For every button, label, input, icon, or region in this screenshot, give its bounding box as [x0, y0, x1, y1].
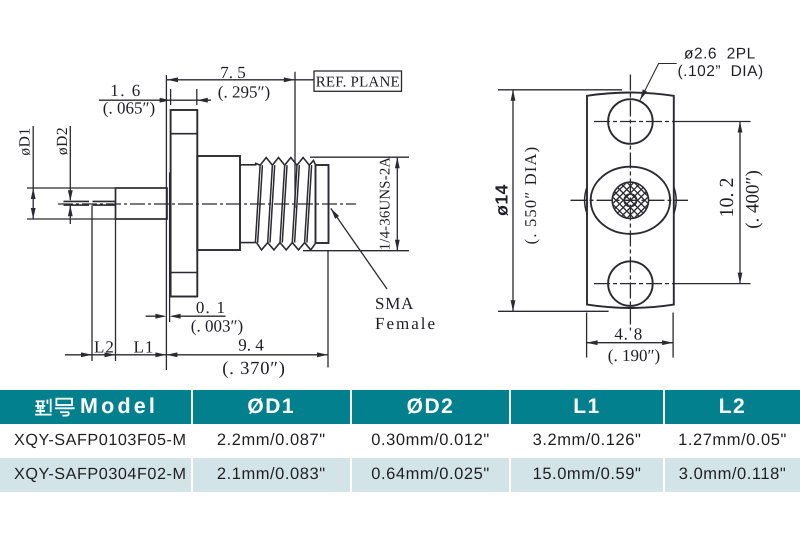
mid body	[197, 156, 240, 250]
data row 2	[0, 458, 205, 492]
header text 型号 (Model in Chinese, drawn strokes)	[30, 396, 78, 418]
svg-text:(. 400″): (. 400″)	[743, 170, 764, 229]
flange plate	[171, 110, 198, 297]
table header row background	[0, 390, 191, 424]
svg-text:(.102” DIA): (.102” DIA)	[678, 63, 764, 80]
dimension 4.8	[586, 313, 588, 358]
svg-text:(. 065″): (. 065″)	[103, 99, 155, 118]
ref plane line	[294, 72, 296, 208]
flange hole lines	[171, 133, 198, 135]
flange front outline	[587, 93, 674, 309]
header cell Model	[0, 390, 219, 424]
data row 1	[0, 424, 205, 458]
svg-text:Female: Female	[375, 314, 437, 333]
svg-text:1/4-36UNS-2A: 1/4-36UNS-2A	[378, 157, 394, 251]
REF. PLANE box	[295, 79, 314, 81]
svg-text:øD1: øD1	[17, 127, 34, 155]
ØD2 dimension	[69, 126, 71, 200]
thread undercut	[240, 164, 257, 166]
svg-text:0. 1: 0. 1	[196, 298, 226, 317]
dielectric rod ØD1	[116, 188, 168, 219]
ØD1 dimension	[32, 126, 34, 219]
mounting hole top	[608, 99, 653, 144]
thread flank lines	[255, 165, 260, 242]
svg-text:REF. PLANE: REF. PLANE	[316, 74, 400, 90]
svg-text:øD2: øD2	[54, 127, 71, 155]
bottom hole centerline	[594, 283, 676, 285]
svg-text:9. 4: 9. 4	[238, 336, 264, 355]
svg-text:(. 003″): (. 003″)	[191, 317, 243, 336]
pin socket circle	[624, 194, 636, 206]
svg-text:SMA: SMA	[375, 294, 414, 313]
svg-text:ø2.6 2PL: ø2.6 2PL	[684, 46, 756, 63]
mounting hole bottom	[608, 261, 653, 306]
table row 2 background	[0, 458, 191, 492]
top hole centerline	[594, 121, 676, 123]
thread crest profile bottom	[257, 243, 316, 250]
svg-text:7. 5: 7. 5	[220, 63, 246, 82]
svg-text:(. 295″): (. 295″)	[218, 83, 270, 102]
ØD1 extension lines	[27, 187, 116, 189]
thread crest profile top	[255, 158, 316, 166]
svg-text:1. 6: 1. 6	[110, 81, 142, 100]
dimension 7.5	[167, 79, 295, 81]
pin ØD2 (solder pin, broken view)	[64, 200, 90, 202]
svg-text:(. 550″ DIA): (. 550″ DIA)	[521, 146, 540, 245]
body bump right	[674, 187, 676, 214]
center body circle	[591, 167, 670, 234]
header cell L1	[511, 390, 663, 424]
svg-text:L1: L1	[134, 338, 155, 357]
header cell D1	[193, 390, 351, 424]
svg-text:(. 190″): (. 190″)	[608, 346, 660, 365]
header cell D2	[352, 390, 509, 424]
center horizontal centerline	[571, 199, 689, 201]
boss rear line / 0.1 extension	[169, 173, 171, 323]
vertical centerline	[629, 75, 631, 331]
front barrel (coupling face)	[316, 165, 329, 243]
svg-text:(. 370″): (. 370″)	[222, 359, 285, 379]
dimension ø14	[498, 89, 622, 91]
svg-text:4. 8: 4. 8	[614, 325, 643, 344]
dimension 1.6	[170, 89, 172, 105]
dimension 0.1	[146, 315, 164, 317]
body bump left	[585, 187, 587, 214]
svg-text:L2: L2	[94, 338, 115, 357]
header cell L2	[665, 390, 800, 424]
svg-text:10. 2: 10. 2	[716, 178, 738, 218]
thread spec dimension 1/4-36UNS-2A	[310, 156, 409, 158]
boss face extension line	[165, 75, 167, 370]
label SMA Female	[331, 208, 387, 289]
bottom dimension line L2 L1 9.4	[65, 354, 328, 356]
svg-text:ø14: ø14	[492, 184, 512, 216]
dimension 10.2	[739, 122, 741, 284]
centerline (left view axis)	[58, 203, 356, 205]
